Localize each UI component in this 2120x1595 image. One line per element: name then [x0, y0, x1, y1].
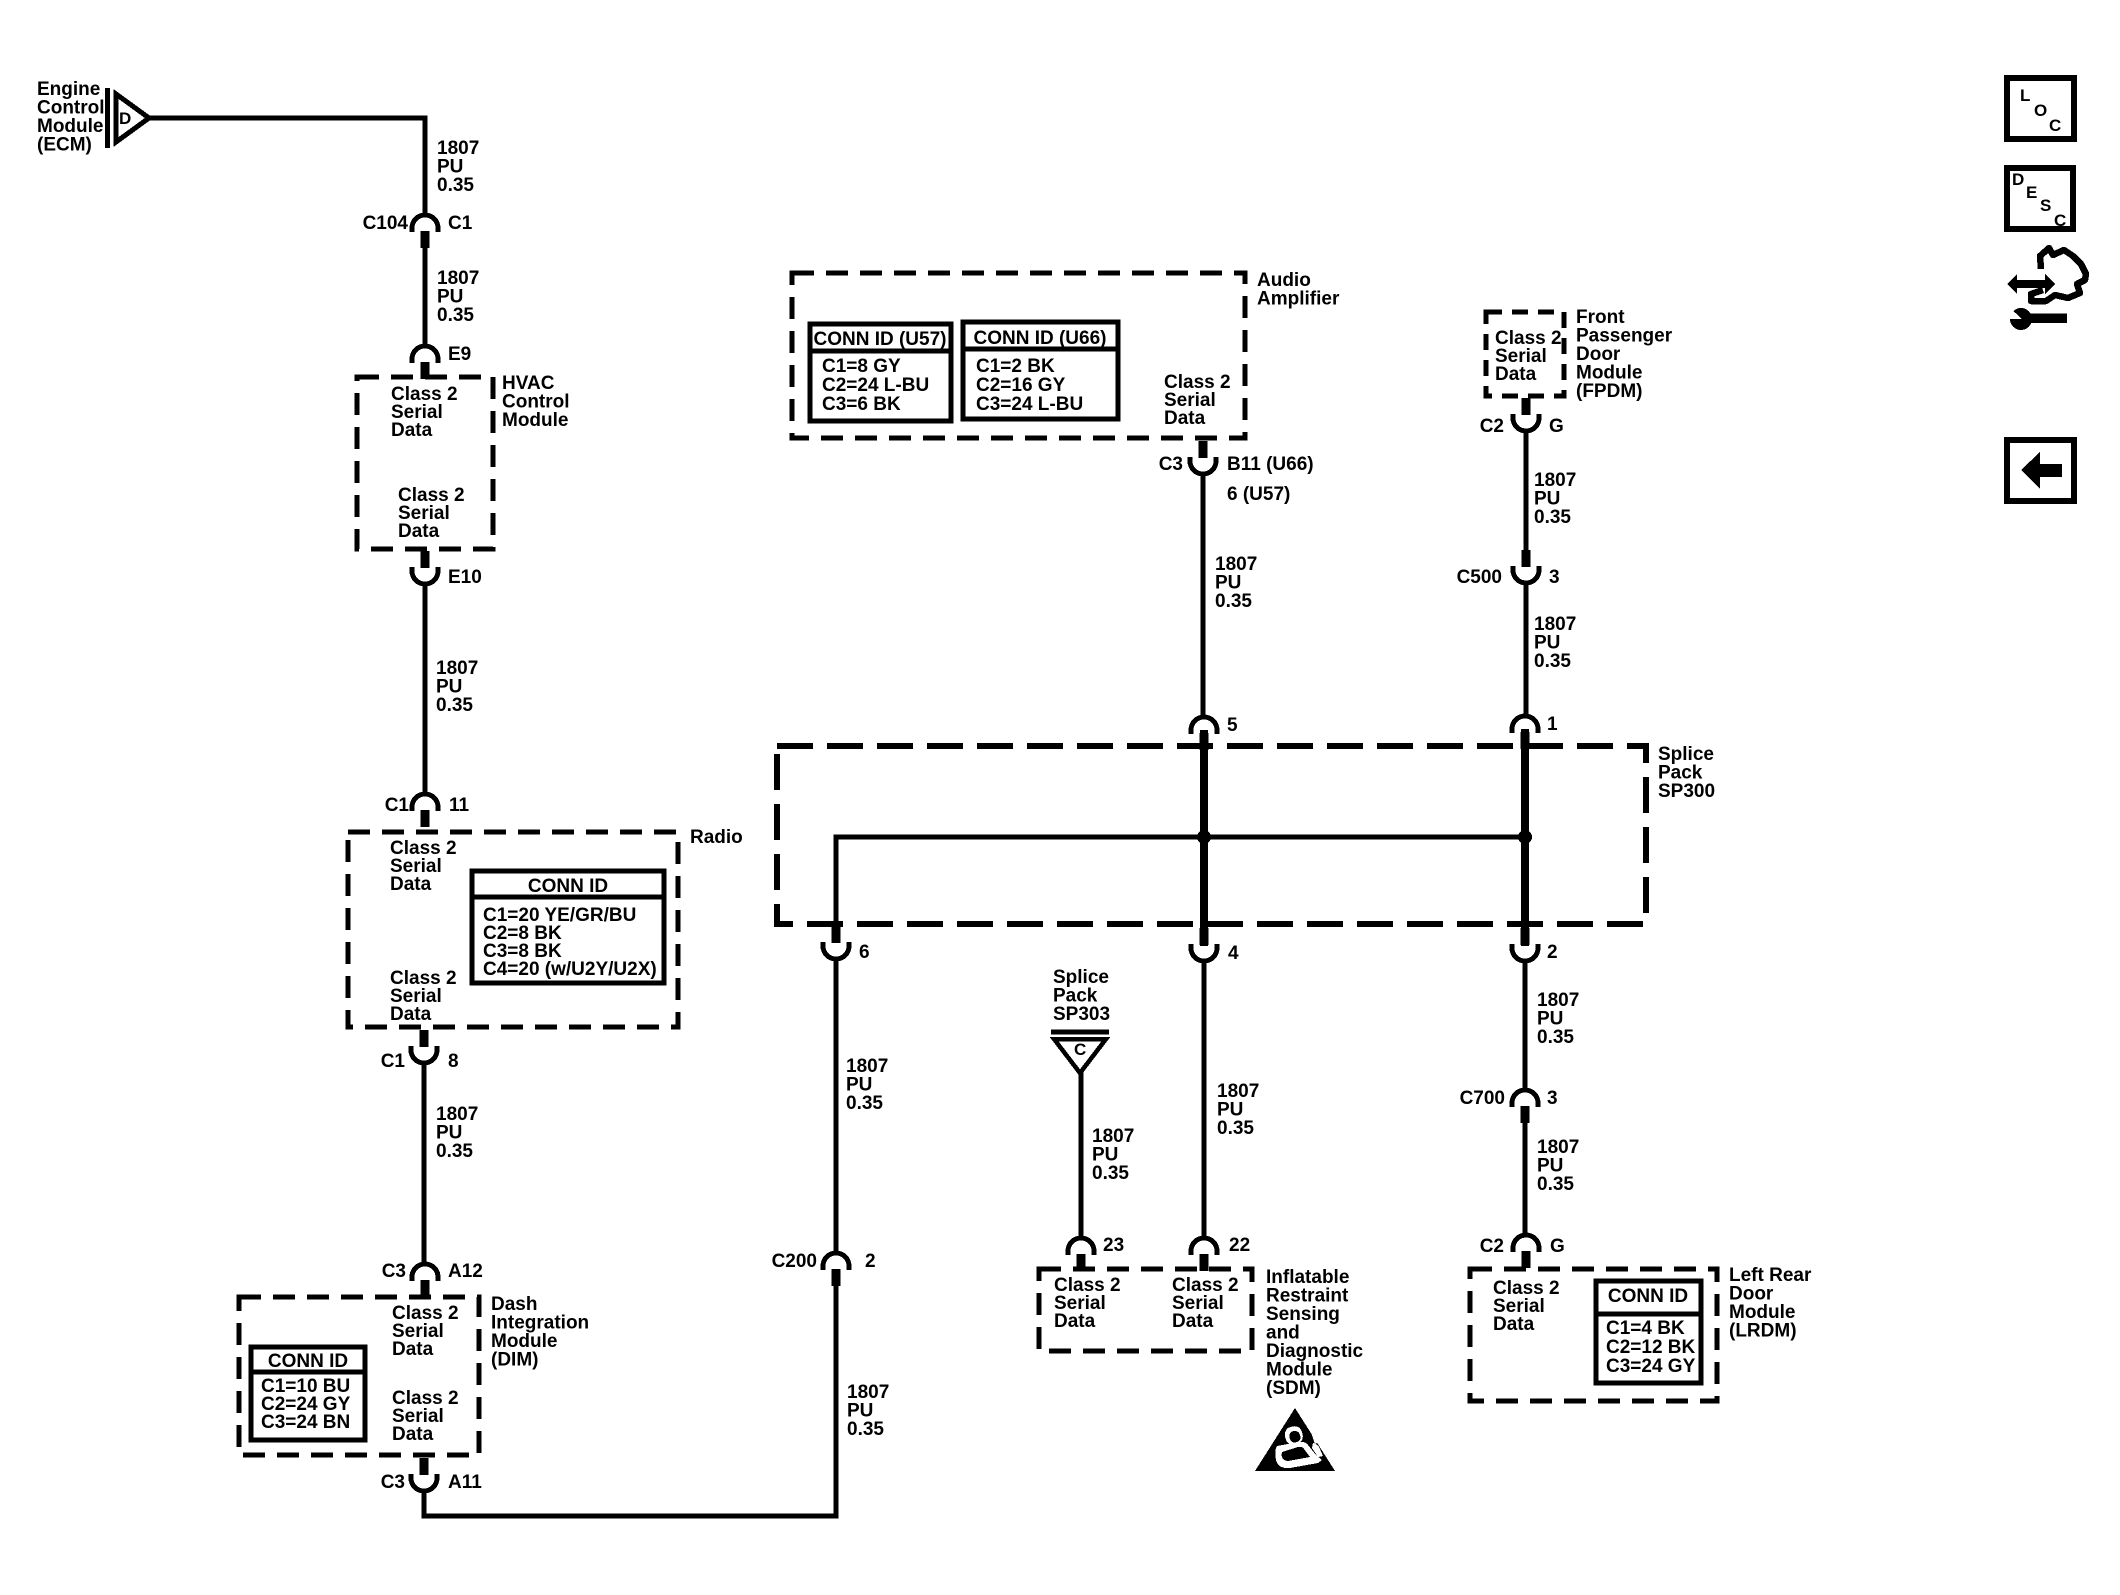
connector E10 [412, 551, 482, 588]
svg-text:2: 2 [1547, 942, 1558, 963]
node Class 2 Serial Data (SDM 22) [1172, 1275, 1239, 1332]
wire SP300 internal bus [836, 837, 1525, 926]
connector 22 (SDM) [1191, 1235, 1250, 1271]
svg-text:11: 11 [449, 795, 470, 816]
node Class 2 Serial Data (HVAC in) [391, 384, 458, 441]
svg-text:O: O [2034, 101, 2047, 120]
svg-text:E10: E10 [448, 567, 482, 588]
svg-text:C3: C3 [1159, 454, 1183, 475]
node junction (bus at 1525) [1518, 830, 1532, 844]
svg-text:CONN ID: CONN ID [268, 1351, 348, 1372]
svg-text:(ECM): (ECM) [37, 135, 92, 156]
svg-text:C1=4 BK: C1=4 BK [1606, 1318, 1685, 1339]
connector C200 2 [772, 1251, 876, 1286]
wire C700 to C2/G LRDM [1523, 1122, 1528, 1236]
node Class 2 Serial Data (HVAC out) [398, 485, 465, 542]
wire C2/G to C500 [1524, 430, 1529, 552]
connector D (ECM output triangle) [105, 88, 149, 148]
connector C2 G (LRDM in) [1480, 1235, 1565, 1268]
label 1807 PU 0.35 (SP303 to 23) [1092, 1126, 1134, 1184]
connector 6 (SP300) [823, 926, 870, 963]
svg-text:B11 (U66): B11 (U66) [1227, 454, 1314, 475]
svg-text:SP300: SP300 [1658, 781, 1715, 802]
label 1807 PU 0.35 (C500 to 1) [1534, 614, 1576, 672]
svg-text:0.35: 0.35 [437, 305, 474, 326]
svg-text:6: 6 [859, 942, 870, 963]
label 1807 PU 0.35 (C200 riser) [847, 1382, 889, 1440]
wire SP303 to 23 [1079, 1071, 1084, 1239]
label 1807 PU 0.35 (E10 to C1/11) [436, 658, 478, 716]
svg-text:Data: Data [1493, 1314, 1535, 1335]
svg-text:C1=8 GY: C1=8 GY [822, 356, 901, 377]
wire C1/8 to C3/A12 [422, 1062, 427, 1265]
node Class 2 Serial Data (Radio out) [390, 968, 457, 1025]
svg-text:Radio: Radio [690, 827, 743, 848]
wire E10 to C1/11 [423, 583, 428, 795]
svg-text:(LRDM): (LRDM) [1729, 1321, 1797, 1342]
connector C3 A11 (DIM out) [381, 1458, 483, 1493]
connector 2 (SP300 bottom) [1512, 928, 1558, 963]
wire 2 to C700 [1523, 960, 1528, 1091]
wire ECM to C104 [150, 118, 425, 216]
svg-text:C3: C3 [381, 1472, 405, 1493]
svg-text:CONN ID (U57): CONN ID (U57) [813, 329, 946, 350]
module Splice Pack SP300 [777, 744, 1715, 924]
connector 1 (SP300 top) [1512, 714, 1558, 749]
svg-text:CONN ID: CONN ID [528, 876, 608, 897]
table CONN ID (U57) [810, 324, 951, 421]
connector 23 (SDM) [1068, 1235, 1124, 1271]
connector 4 (SP300 bottom) [1191, 928, 1239, 964]
svg-text:(DIM): (DIM) [491, 1350, 538, 1371]
svg-text:C2=12 BK: C2=12 BK [1606, 1337, 1696, 1358]
connector C500 3 [1457, 550, 1560, 588]
svg-text:Amplifier: Amplifier [1257, 289, 1340, 310]
svg-text:C: C [2054, 211, 2066, 230]
label Splice Pack SP303 [1053, 967, 1110, 1025]
module Dash Integration Module (DIM) [239, 1294, 589, 1455]
svg-text:Data: Data [1164, 408, 1206, 429]
svg-text:S: S [2040, 196, 2051, 215]
label 1807 PU 0.35 (C2 to C500) [1534, 470, 1576, 528]
table CONN ID (LRDM) [1596, 1281, 1701, 1383]
label 1807 PU 0.35 (2 to C700) [1537, 990, 1579, 1048]
svg-text:0.35: 0.35 [1534, 507, 1571, 528]
module Front Passenger Door Module (FPDM) [1486, 307, 1673, 402]
svg-text:0.35: 0.35 [1092, 1163, 1129, 1184]
connector C1 8 (Radio out) [381, 1030, 459, 1072]
wire SP300 vertical 1 to 2 [1521, 729, 1529, 946]
icon DESC box [2007, 168, 2073, 230]
svg-text:0.35: 0.35 [847, 1419, 884, 1440]
svg-text:D: D [119, 109, 131, 128]
table CONN ID (U66) [963, 322, 1118, 419]
svg-text:Data: Data [390, 874, 432, 895]
table CONN ID (DIM) [251, 1347, 365, 1440]
svg-text:C3=24 L-BU: C3=24 L-BU [976, 394, 1083, 415]
svg-text:C1=2 BK: C1=2 BK [976, 356, 1055, 377]
svg-text:C2=24 L-BU: C2=24 L-BU [822, 375, 929, 396]
svg-text:22: 22 [1229, 1235, 1250, 1256]
svg-text:C700: C700 [1460, 1088, 1505, 1109]
svg-text:3: 3 [1547, 1088, 1558, 1109]
label 1807 PU 0.35 (C1/8 to C3/A12) [436, 1104, 478, 1162]
label 1807 PU 0.35 (4 to 22) [1217, 1081, 1259, 1139]
wire C500 to 1 [1524, 582, 1529, 717]
svg-text:0.35: 0.35 [1534, 651, 1571, 672]
icon LOC box [2007, 78, 2074, 139]
svg-text:Module: Module [502, 410, 569, 431]
splice pack SP303 triangle C [1051, 1032, 1109, 1073]
svg-text:1: 1 [1547, 714, 1558, 735]
svg-text:D: D [2012, 170, 2024, 189]
icon SRS warning triangle [1255, 1408, 1335, 1471]
svg-text:Data: Data [1172, 1311, 1214, 1332]
module Inflatable Restraint SDM [1039, 1267, 1364, 1399]
svg-text:8: 8 [448, 1051, 459, 1072]
module Left Rear Door Module (LRDM) [1470, 1265, 1812, 1401]
svg-text:Data: Data [1054, 1311, 1096, 1332]
table CONN ID (Radio) [472, 871, 664, 983]
svg-text:C1: C1 [448, 213, 473, 234]
svg-text:C200: C200 [772, 1251, 817, 1272]
svg-text:CONN ID: CONN ID [1608, 1286, 1688, 1307]
label 1807 PU 0.35 (6 to C200) [846, 1056, 888, 1114]
svg-text:3: 3 [1549, 567, 1560, 588]
svg-text:0.35: 0.35 [436, 695, 473, 716]
svg-text:C3=24 BN: C3=24 BN [261, 1412, 350, 1433]
svg-text:CONN ID (U66): CONN ID (U66) [973, 328, 1106, 349]
connector C3 B11 (Amp out) [1159, 441, 1314, 505]
svg-text:A12: A12 [448, 1261, 483, 1282]
svg-text:C: C [2049, 116, 2061, 135]
svg-text:G: G [1549, 416, 1564, 437]
connector C1 11 (Radio in) [385, 794, 470, 827]
svg-text:0.35: 0.35 [437, 175, 474, 196]
svg-text:0.35: 0.35 [1537, 1027, 1574, 1048]
svg-text:C1: C1 [385, 795, 410, 816]
svg-text:C500: C500 [1457, 567, 1502, 588]
wire SP300 vertical 5 to 4 [1200, 730, 1208, 946]
module Audio Amplifier [792, 270, 1340, 438]
connector C700 3 [1460, 1088, 1558, 1123]
label 1807 PU 0.35 (C104 to E9) [437, 268, 479, 326]
node Class 2 Serial Data (Radio in) [390, 838, 457, 895]
svg-text:L: L [2020, 86, 2030, 105]
icon wrench and arrow [2003, 248, 2086, 330]
svg-text:C104: C104 [363, 213, 409, 234]
svg-text:C2: C2 [1480, 1236, 1504, 1257]
svg-text:C3=24 GY: C3=24 GY [1606, 1356, 1696, 1377]
node Class 2 Serial Data (Amp) [1164, 372, 1231, 429]
module Engine Control Module (ECM) label [37, 79, 105, 156]
svg-text:E9: E9 [448, 344, 471, 365]
svg-text:Data: Data [392, 1339, 434, 1360]
wire C200 to splice pack 6 [834, 958, 839, 1254]
svg-text:C3=6 BK: C3=6 BK [822, 394, 901, 415]
svg-text:2: 2 [865, 1251, 876, 1272]
node Class 2 Serial Data (FPDM) [1495, 328, 1562, 385]
svg-text:0.35: 0.35 [436, 1141, 473, 1162]
connector C3 A12 (DIM in) [382, 1261, 483, 1297]
svg-text:23: 23 [1103, 1235, 1124, 1256]
svg-text:E: E [2026, 183, 2037, 202]
svg-text:5: 5 [1227, 715, 1238, 736]
svg-text:0.35: 0.35 [1215, 591, 1252, 612]
svg-text:(SDM): (SDM) [1266, 1378, 1321, 1399]
module HVAC Control Module [357, 373, 570, 549]
svg-text:C: C [1074, 1040, 1086, 1059]
wire B11 to 5 [1201, 473, 1206, 717]
svg-text:0.35: 0.35 [846, 1093, 883, 1114]
svg-text:C1: C1 [381, 1051, 406, 1072]
label 1807 PU 0.35 (ECM to C104) [437, 138, 479, 196]
wire A11 to C200 riser [424, 1283, 836, 1516]
svg-text:C2=16 GY: C2=16 GY [976, 375, 1066, 396]
node Class 2 Serial Data (DIM in) [392, 1303, 459, 1360]
svg-text:4: 4 [1228, 943, 1239, 964]
svg-text:0.35: 0.35 [1537, 1174, 1574, 1195]
svg-text:C3: C3 [382, 1261, 406, 1282]
svg-text:Data: Data [390, 1004, 432, 1025]
node Class 2 Serial Data (SDM 23) [1054, 1275, 1121, 1332]
svg-text:Data: Data [398, 521, 440, 542]
label 1807 PU 0.35 (C700 to C2) [1537, 1137, 1579, 1195]
node junction (bus at 1204) [1197, 830, 1211, 844]
node Class 2 Serial Data (DIM out) [392, 1388, 459, 1445]
module Radio [348, 827, 743, 1027]
node Class 2 Serial Data (LRDM) [1493, 1278, 1560, 1335]
svg-text:Data: Data [392, 1424, 434, 1445]
connector 5 (SP300 top) [1191, 715, 1238, 750]
svg-text:C2: C2 [1480, 416, 1504, 437]
icon back arrow box [2007, 440, 2074, 501]
wire 4 to 22 [1202, 960, 1207, 1239]
svg-text:0.35: 0.35 [1217, 1118, 1254, 1139]
svg-text:G: G [1550, 1236, 1565, 1257]
connector C104 C1 [363, 213, 473, 248]
svg-text:Data: Data [1495, 364, 1537, 385]
svg-text:Data: Data [391, 420, 433, 441]
svg-text:A11: A11 [448, 1472, 482, 1493]
svg-text:SP303: SP303 [1053, 1004, 1110, 1025]
svg-text:6 (U57): 6 (U57) [1227, 484, 1290, 505]
connector C2 G (FPDM out) [1480, 398, 1564, 437]
svg-text:(FPDM): (FPDM) [1576, 381, 1642, 402]
label 1807 PU 0.35 (B11 to 5) [1215, 554, 1257, 612]
connector E9 [412, 344, 471, 379]
svg-text:C4=20 (w/U2Y/U2X): C4=20 (w/U2Y/U2X) [483, 959, 657, 980]
wire C104 to E9 [423, 247, 428, 347]
